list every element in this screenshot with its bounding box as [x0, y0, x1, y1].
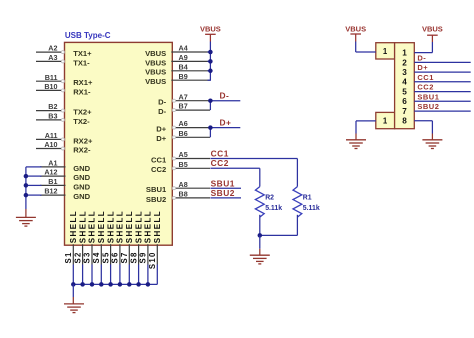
svg-text:CC2: CC2 — [417, 83, 434, 92]
wire D- (J2 pin 2) — [414, 61, 470, 63]
svg-text:SHELL: SHELL — [88, 210, 97, 243]
svg-text:S5: S5 — [101, 251, 110, 263]
svg-text:SHELL: SHELL — [144, 210, 153, 243]
resistor R2 — [255, 187, 264, 236]
pin S2 (SHELL) — [73, 210, 87, 265]
wire CC1 (A5 to R1) — [210, 159, 297, 187]
connector J2 shell box top (pin 1) — [376, 43, 395, 59]
pin B6 (D+) — [156, 129, 210, 143]
svg-text:RX1-: RX1- — [73, 87, 91, 96]
svg-text:GND: GND — [73, 173, 90, 182]
junction SHELL S7 — [127, 282, 132, 287]
power symbol VBUS (J1) — [200, 24, 221, 41]
svg-text:4: 4 — [402, 78, 407, 87]
svg-text:A9: A9 — [179, 53, 188, 62]
junction GND/A12 — [24, 174, 29, 179]
svg-text:S7: S7 — [120, 251, 129, 263]
connector J2 body (USB plug) — [395, 43, 415, 129]
svg-text:CC1: CC1 — [151, 155, 167, 164]
svg-text:S4: S4 — [92, 251, 101, 263]
svg-text:TX2-: TX2- — [73, 117, 90, 126]
wire D+ (B6 to junction) — [209, 128, 211, 138]
svg-text:1: 1 — [383, 47, 388, 56]
svg-text:B6: B6 — [179, 129, 188, 138]
wire R1/R2 bottom — [260, 234, 298, 236]
svg-text:B3: B3 — [48, 112, 57, 121]
wire D+ (J2 pin 3) — [414, 71, 470, 73]
wire CC2 (B5 to R2) — [210, 168, 259, 186]
svg-text:1: 1 — [402, 49, 407, 58]
svg-text:TX2+: TX2+ — [73, 108, 92, 117]
pin A7 (D-) — [158, 92, 210, 106]
pin S6 (SHELL) — [111, 210, 125, 265]
svg-text:VBUS: VBUS — [145, 49, 166, 58]
pin B2 (TX2+) — [36, 102, 92, 116]
wire D- (B7 to junction) — [209, 101, 211, 110]
svg-text:B10: B10 — [44, 82, 57, 91]
svg-text:SHELL: SHELL — [97, 210, 106, 243]
pin S8 (SHELL) — [129, 210, 143, 265]
svg-text:S2: S2 — [73, 251, 82, 263]
svg-text:8: 8 — [402, 117, 407, 126]
pin B1 (GND) — [40, 177, 91, 191]
wire VBUS to pin 1 — [414, 42, 432, 53]
pin A8 (SBU1) — [146, 180, 210, 194]
power symbol VBUS (J2 right) — [422, 25, 443, 42]
svg-text:SHELL: SHELL — [134, 210, 143, 243]
svg-text:SHELL: SHELL — [116, 210, 125, 243]
pin A5 (CC1) — [151, 150, 210, 164]
svg-text:VBUS: VBUS — [145, 68, 166, 77]
ground (below R2) — [250, 235, 270, 264]
svg-text:A3: A3 — [48, 53, 57, 62]
junction SHELL S4 — [99, 282, 104, 287]
svg-text:SHELL: SHELL — [69, 210, 78, 243]
ground (left GND bus) — [16, 209, 36, 226]
svg-text:SHELL: SHELL — [125, 210, 134, 243]
junction SHELL S1 — [71, 282, 76, 287]
svg-text:TX1-: TX1- — [73, 58, 90, 67]
pin B3 (TX2-) — [36, 112, 90, 126]
junction SHELL S3 — [90, 282, 95, 287]
junction D+ — [208, 125, 213, 130]
svg-text:7: 7 — [402, 107, 407, 116]
pin A3 (TX1-) — [36, 53, 90, 67]
wire SBU1 (J2 pin 6) — [414, 100, 470, 102]
svg-text:A8: A8 — [179, 180, 188, 189]
svg-text:D+: D+ — [417, 63, 428, 72]
svg-text:VBUS: VBUS — [145, 58, 166, 67]
svg-text:SBU2: SBU2 — [146, 195, 166, 204]
svg-text:SBU1: SBU1 — [146, 185, 167, 194]
pin B9 (VBUS) — [145, 72, 210, 86]
junction R2 bottom — [258, 233, 263, 238]
svg-text:B5: B5 — [179, 160, 188, 169]
svg-text:D-: D- — [417, 53, 426, 62]
junction SHELL S6 — [118, 282, 123, 287]
svg-text:SHELL: SHELL — [78, 210, 87, 243]
svg-text:D-: D- — [158, 98, 166, 107]
svg-text:CC2: CC2 — [211, 158, 229, 168]
pin A12 (GND) — [40, 168, 91, 182]
junction GND/B12 — [24, 193, 29, 198]
pin A2 (TX1+) — [36, 44, 92, 58]
svg-text:A6: A6 — [179, 119, 188, 128]
svg-text:B2: B2 — [48, 102, 57, 111]
wire VBUS vertical bus — [209, 42, 211, 81]
pin S10 (SHELL) — [148, 210, 162, 269]
wire SBU1 stub — [210, 187, 241, 189]
pin B12 (GND) — [40, 187, 91, 201]
svg-text:S8: S8 — [129, 251, 138, 263]
svg-text:S9: S9 — [139, 251, 148, 263]
pin B8 (SBU2) — [146, 190, 210, 204]
svg-text:S3: S3 — [83, 251, 92, 263]
wire CC1 (J2 pin 4) — [414, 81, 470, 83]
pin S5 (SHELL) — [101, 210, 115, 265]
svg-text:A11: A11 — [45, 131, 58, 140]
wire pin 8 to ground — [414, 121, 432, 140]
connector J1 body (USB Type-C receptacle) — [65, 42, 173, 245]
junction SHELL S8 — [136, 282, 141, 287]
svg-text:CC2: CC2 — [151, 165, 166, 174]
junction SHELL S9 — [146, 282, 151, 287]
junction SHELL S5 — [108, 282, 113, 287]
svg-text:A5: A5 — [179, 150, 188, 159]
power symbol VBUS (J2 left) — [345, 25, 366, 42]
ground (J2 left) — [346, 140, 366, 149]
resistor R1 — [293, 187, 302, 236]
svg-text:B7: B7 — [179, 102, 188, 111]
svg-text:B9: B9 — [179, 72, 188, 81]
svg-text:VBUS: VBUS — [345, 25, 366, 34]
svg-text:SBU1: SBU1 — [417, 92, 439, 101]
svg-text:D+: D+ — [156, 134, 166, 143]
svg-text:GND: GND — [73, 182, 90, 191]
pin A4 (VBUS) — [145, 44, 210, 58]
svg-text:CC1: CC1 — [211, 148, 229, 158]
svg-text:A10: A10 — [44, 140, 57, 149]
pin B4 (VBUS) — [145, 62, 210, 76]
svg-text:S10: S10 — [148, 251, 157, 269]
svg-text:5.11k: 5.11k — [303, 205, 320, 212]
wire CC2 (J2 pin 5) — [414, 91, 470, 93]
ground (J2 right) — [422, 140, 442, 149]
wire VBUS pin connections — [208, 52, 212, 80]
pin B5 (CC2) — [151, 160, 210, 174]
svg-text:5.11k: 5.11k — [265, 205, 282, 212]
junction GND/B1 — [24, 183, 29, 188]
svg-text:A2: A2 — [48, 44, 57, 53]
svg-text:5: 5 — [402, 88, 407, 97]
svg-text:GND: GND — [73, 192, 90, 201]
junction VBUS/A4 — [208, 50, 213, 55]
ground (shell) — [64, 284, 84, 312]
svg-text:6: 6 — [402, 97, 407, 106]
svg-text:RX2-: RX2- — [73, 145, 91, 154]
svg-text:R1: R1 — [303, 194, 312, 201]
svg-text:CC1: CC1 — [417, 73, 434, 82]
svg-text:VBUS: VBUS — [422, 25, 443, 34]
svg-text:SHELL: SHELL — [106, 210, 115, 243]
wire GND bus (left) — [26, 167, 42, 209]
svg-text:SHELL: SHELL — [153, 210, 162, 243]
svg-text:B4: B4 — [179, 62, 188, 71]
pin S9 (SHELL) — [139, 210, 153, 265]
svg-text:TX1+: TX1+ — [73, 49, 92, 58]
wire VBUS to top shell — [356, 42, 376, 53]
svg-text:SBU2: SBU2 — [211, 188, 235, 198]
pin S3 (SHELL) — [83, 210, 97, 265]
svg-text:RX1+: RX1+ — [73, 78, 93, 87]
svg-text:D-: D- — [220, 91, 230, 101]
pin A1 (GND) — [40, 159, 91, 173]
svg-text:RX2+: RX2+ — [73, 136, 93, 145]
svg-text:USB Type-C: USB Type-C — [65, 31, 111, 40]
pin B10 (RX1-) — [36, 82, 91, 96]
svg-text:B1: B1 — [48, 177, 57, 186]
pin B11 (RX1+) — [36, 73, 93, 87]
svg-text:B11: B11 — [45, 73, 58, 82]
svg-text:D+: D+ — [220, 117, 232, 127]
wire bottom shell to ground — [356, 121, 376, 140]
svg-text:S6: S6 — [111, 251, 120, 263]
svg-text:D+: D+ — [156, 125, 166, 134]
junction VBUS/A9 — [208, 59, 213, 64]
junction VBUS/B4 — [208, 69, 213, 74]
pin A10 (RX2-) — [36, 140, 91, 154]
svg-text:A12: A12 — [44, 168, 57, 177]
svg-text:A1: A1 — [48, 159, 57, 168]
svg-text:R2: R2 — [265, 194, 274, 201]
svg-text:B8: B8 — [179, 190, 188, 199]
svg-text:B12: B12 — [44, 187, 57, 196]
svg-text:3: 3 — [402, 68, 407, 77]
svg-text:D-: D- — [158, 107, 166, 116]
svg-text:2: 2 — [402, 58, 407, 67]
svg-text:VBUS: VBUS — [200, 24, 221, 33]
pin S1 (SHELL) — [64, 210, 78, 265]
wire D+ (A6 row) — [210, 127, 240, 129]
pin A11 (RX2+) — [36, 131, 93, 145]
svg-text:SBU2: SBU2 — [417, 102, 439, 111]
svg-text:GND: GND — [73, 164, 90, 173]
wire SBU2 (J2 pin 7) — [414, 110, 470, 112]
svg-text:S1: S1 — [64, 251, 73, 263]
junction SHELL S2 — [80, 282, 85, 287]
svg-text:1: 1 — [383, 116, 388, 125]
svg-text:A4: A4 — [179, 44, 188, 53]
pin S7 (SHELL) — [120, 210, 134, 265]
connector J2 shell box bottom (pin 1) — [376, 112, 395, 128]
pin A9 (VBUS) — [145, 53, 210, 67]
svg-text:A7: A7 — [179, 92, 188, 101]
pin S4 (SHELL) — [92, 210, 106, 265]
pin A6 (D+) — [156, 119, 210, 133]
svg-text:VBUS: VBUS — [145, 77, 166, 86]
pin B7 (D-) — [158, 102, 210, 116]
svg-text:SBU1: SBU1 — [211, 178, 235, 188]
wire D- (A7 row) — [210, 100, 240, 102]
wire SBU2 stub — [210, 197, 241, 199]
junction D- — [208, 98, 213, 103]
wire SHELL bus — [73, 265, 157, 285]
